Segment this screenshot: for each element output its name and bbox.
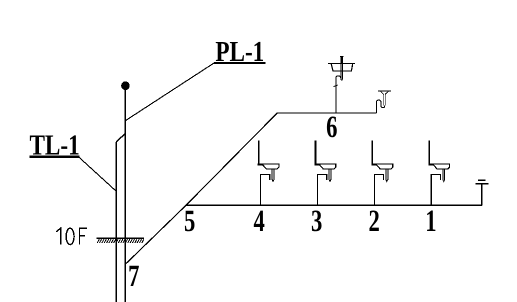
svg-text:3: 3 bbox=[311, 203, 322, 238]
riser offset connector bbox=[116, 134, 125, 142]
svg-text:7: 7 bbox=[128, 258, 139, 293]
svg-text:2: 2 bbox=[368, 203, 379, 238]
drain branch diagonal from riser to floor runs bbox=[125, 113, 277, 264]
label 10F bbox=[56, 228, 60, 244]
cleanout / vent terminal at right end bbox=[476, 180, 489, 205]
svg-text:5: 5 bbox=[184, 203, 195, 238]
leader line from PL-1 to vent stack bbox=[125, 63, 214, 121]
PL-1 underline bbox=[214, 62, 266, 64]
svg-text:4: 4 bbox=[254, 203, 265, 238]
sink fixture at node 6 bbox=[328, 57, 355, 113]
washbasin fixture at node 3 bbox=[315, 141, 336, 206]
upper branch line (node 6 run) bbox=[277, 112, 376, 114]
floor drain fixture bbox=[376, 91, 390, 113]
washbasin fixture at node 1 bbox=[428, 141, 449, 206]
lower collection line (nodes 1-5 run) bbox=[186, 204, 482, 206]
svg-text:6: 6 bbox=[326, 109, 337, 144]
floor hatching bbox=[97, 239, 144, 243]
TL-1 underline bbox=[29, 156, 79, 158]
leader line from TL-1 to vent riser bbox=[78, 157, 116, 192]
svg-text:1: 1 bbox=[425, 203, 436, 238]
washbasin fixture at node 2 bbox=[372, 141, 393, 206]
floor line 10F bbox=[96, 237, 144, 239]
riser PL-1 vertical pipe bbox=[124, 90, 126, 302]
vent cap (stack top) bbox=[121, 81, 130, 90]
washbasin fixture at node 4 bbox=[258, 141, 279, 206]
riser TL-1 vertical pipe bbox=[115, 142, 117, 302]
